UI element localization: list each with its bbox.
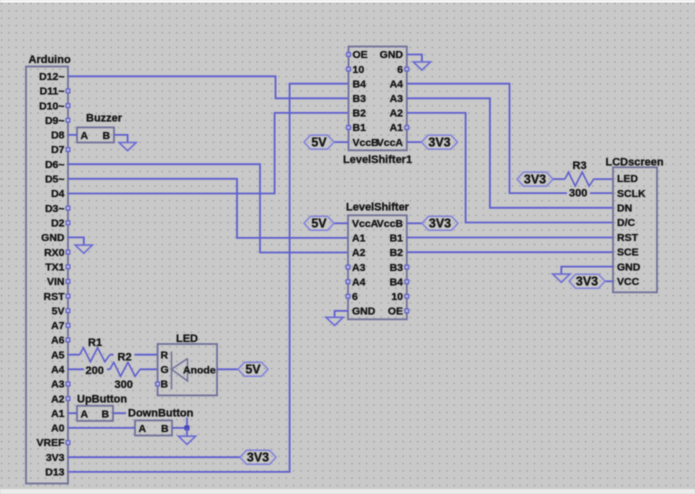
- svg-text:GND: GND: [352, 306, 376, 318]
- svg-text:R2: R2: [118, 351, 132, 363]
- ground at buttons: [178, 436, 195, 444]
- IC LCDscreen body: [613, 167, 657, 292]
- svg-text:GND: GND: [617, 261, 641, 273]
- svg-text:OE: OE: [388, 306, 403, 318]
- wire 3V3 flag to LCD VCC: [605, 280, 613, 282]
- svg-text:VccB: VccB: [353, 137, 380, 149]
- svg-text:3V3: 3V3: [247, 450, 269, 464]
- wire D12 to LevelShifter1 B3: [68, 76, 349, 98]
- power flag 5V at LevelShifter: [304, 216, 334, 230]
- svg-text:200: 200: [86, 365, 104, 377]
- power flag 5V at LevelShifter1: [304, 135, 334, 149]
- LED diode symbol: [172, 352, 188, 390]
- svg-text:R1: R1: [88, 337, 102, 349]
- svg-text:A3: A3: [390, 93, 404, 105]
- wire LevelShifter1 GND to ground: [407, 55, 422, 62]
- svg-text:B: B: [161, 423, 169, 435]
- unconnected pin A3 of Arduino: [66, 382, 70, 386]
- svg-text:LCDscreen: LCDscreen: [606, 156, 664, 168]
- svg-text:GND: GND: [41, 232, 65, 244]
- resistor R2: [110, 362, 140, 376]
- unconnected pin VIN of Arduino: [66, 280, 70, 284]
- svg-text:VCC: VCC: [617, 276, 640, 288]
- unconnected pin A6 of Arduino: [66, 338, 70, 342]
- svg-text:DownButton: DownButton: [128, 407, 194, 419]
- svg-text:A0: A0: [51, 423, 65, 435]
- svg-text:B4: B4: [390, 276, 404, 288]
- wire LCD GND to ground: [561, 267, 613, 275]
- power flag 3V3 at LCD VCC: [569, 274, 605, 288]
- svg-text:A4: A4: [390, 78, 404, 90]
- svg-text:D3~: D3~: [45, 203, 65, 215]
- svg-text:VIN: VIN: [47, 276, 65, 288]
- wire LevelShifter1 A3 to LCD DN: [407, 98, 613, 208]
- svg-text:VccA: VccA: [377, 137, 404, 149]
- svg-text:RST: RST: [44, 291, 66, 303]
- component Buzzer body: [77, 127, 114, 142]
- svg-text:LED: LED: [176, 333, 198, 345]
- svg-text:VccB: VccB: [377, 218, 404, 230]
- svg-text:RST: RST: [617, 232, 639, 244]
- svg-text:A5: A5: [51, 349, 65, 361]
- svg-text:OE: OE: [353, 49, 368, 61]
- ground at Buzzer: [119, 143, 136, 151]
- svg-text:10: 10: [353, 64, 365, 76]
- svg-text:B: B: [102, 409, 110, 421]
- svg-text:SCLK: SCLK: [617, 188, 646, 200]
- unconnected pin D3~ of Arduino: [66, 206, 70, 210]
- ground at LCD: [553, 274, 570, 282]
- component UpButton body: [77, 406, 113, 421]
- unconnected pin 5V of Arduino: [66, 309, 70, 313]
- svg-text:6: 6: [352, 291, 358, 303]
- wire R3 to LCD LED: [594, 178, 613, 180]
- svg-text:B1: B1: [390, 233, 404, 245]
- unconnected pin A1 of LevelShifter1: [405, 126, 409, 130]
- wire Arduino GND pin to ground: [68, 237, 84, 245]
- wire DownButton B to junction: [172, 427, 187, 429]
- wire junction to ground: [186, 428, 188, 436]
- value 300 of R3: [567, 188, 590, 198]
- resistor R1: [80, 348, 110, 362]
- svg-text:3V3: 3V3: [524, 172, 546, 186]
- svg-text:D11~: D11~: [40, 86, 65, 98]
- svg-text:A3: A3: [51, 379, 65, 391]
- svg-text:LevelShifter1: LevelShifter1: [343, 154, 412, 166]
- svg-text:3V3: 3V3: [576, 275, 598, 289]
- svg-text:D8: D8: [51, 130, 65, 142]
- wire A1 to UpButton A: [68, 412, 77, 414]
- svg-text:D/C: D/C: [617, 217, 636, 229]
- unconnected pin 10 of LevelShifter: [405, 294, 409, 298]
- label DownButton: [126, 407, 194, 418]
- svg-text:A: A: [81, 409, 89, 421]
- unconnected pin B of LED: [156, 382, 160, 386]
- value 200 of R1: [84, 365, 107, 375]
- svg-text:B4: B4: [353, 78, 367, 90]
- power flag 3V3 at Arduino: [240, 450, 276, 464]
- svg-text:D4: D4: [51, 188, 65, 200]
- wire LevelShifter GND to ground: [335, 311, 348, 317]
- unconnected pin D10~ of Arduino: [66, 104, 70, 108]
- svg-text:UpButton: UpButton: [77, 394, 127, 406]
- wire D6 to LevelShifter A2: [68, 164, 348, 252]
- svg-text:A1: A1: [352, 233, 366, 245]
- svg-text:RX0: RX0: [44, 247, 65, 259]
- unconnected pin A7 of Arduino: [66, 324, 70, 328]
- wire A5 to R1: [68, 354, 80, 356]
- svg-text:6: 6: [397, 64, 403, 76]
- svg-text:D7: D7: [51, 144, 65, 156]
- svg-text:LevelShifter: LevelShifter: [346, 201, 410, 213]
- svg-text:R3: R3: [573, 160, 587, 172]
- power flag 3V3 at LevelShifter: [422, 216, 458, 230]
- svg-text:VccA: VccA: [352, 218, 379, 230]
- svg-text:B3: B3: [353, 93, 367, 105]
- ground at LevelShifter: [326, 317, 343, 325]
- svg-text:5V: 5V: [52, 305, 65, 317]
- svg-text:DN: DN: [617, 203, 632, 215]
- label R2: [114, 352, 135, 362]
- svg-text:A3: A3: [352, 262, 366, 274]
- wire LevelShifter1 A2 to LCD D/C: [407, 113, 613, 223]
- svg-text:D10~: D10~: [39, 100, 64, 112]
- unconnected pin A2 of Arduino: [66, 397, 70, 401]
- wire LevelShifter B2 to LCD SCE: [407, 251, 613, 253]
- svg-text:R: R: [161, 349, 169, 361]
- component LED body: [158, 344, 217, 395]
- wire Buzzer B to ground: [114, 135, 128, 143]
- svg-text:D9~: D9~: [45, 115, 65, 127]
- unconnected pin A4 of LevelShifter: [346, 280, 350, 284]
- component DownButton body: [135, 420, 172, 435]
- svg-text:A7: A7: [51, 320, 65, 332]
- svg-text:3V3: 3V3: [428, 135, 450, 149]
- IC LevelShifter1 body: [349, 47, 407, 151]
- IC Arduino body: [26, 67, 68, 484]
- wire LevelShifter B1 to LCD RST: [407, 237, 613, 239]
- svg-text:10: 10: [391, 291, 403, 303]
- svg-text:VREF: VREF: [36, 437, 65, 449]
- svg-text:3V3: 3V3: [46, 452, 65, 464]
- ground at Arduino GND: [75, 245, 92, 253]
- unconnected pin 10 of LevelShifter1: [347, 67, 351, 71]
- svg-text:5V: 5V: [245, 363, 261, 377]
- svg-text:Arduino: Arduino: [29, 54, 71, 66]
- wire R1 to LED R: [110, 354, 158, 356]
- svg-text:D5~: D5~: [45, 174, 65, 186]
- wire UpButton B down to junction: [113, 413, 187, 428]
- wire D5 to LevelShifter A1: [68, 179, 348, 238]
- unconnected pin VREF of Arduino: [66, 441, 70, 445]
- unconnected pin OE of LevelShifter1: [347, 53, 351, 57]
- wire LED Anode to 5V flag: [217, 368, 238, 370]
- wire 5V flag to VccA: [334, 222, 348, 224]
- unconnected pin 6 of LevelShifter: [346, 294, 350, 298]
- svg-text:B1: B1: [353, 122, 367, 134]
- unconnected pin OE of LevelShifter: [405, 309, 409, 313]
- svg-text:G: G: [161, 364, 169, 376]
- unconnected pin A3 of LevelShifter: [346, 265, 350, 269]
- svg-text:A1: A1: [390, 122, 404, 134]
- svg-text:D6~: D6~: [45, 159, 65, 171]
- unconnected pin B4 of LevelShifter: [405, 280, 409, 284]
- unconnected pin D2 of Arduino: [66, 221, 70, 225]
- svg-text:B2: B2: [353, 108, 367, 120]
- IC LevelShifter body: [348, 215, 407, 319]
- svg-text:A: A: [81, 130, 89, 142]
- svg-text:A4: A4: [352, 276, 366, 288]
- svg-text:A4: A4: [51, 364, 65, 376]
- svg-text:5V: 5V: [311, 135, 327, 149]
- svg-text:B2: B2: [390, 247, 404, 259]
- wire R2 to LED G: [140, 368, 158, 370]
- svg-text:A6: A6: [51, 335, 65, 347]
- unconnected pin D11~ of Arduino: [66, 89, 70, 93]
- svg-text:300: 300: [569, 188, 587, 200]
- wire VccA to 3V3 flag: [407, 141, 422, 143]
- unconnected pin B1 of LevelShifter1: [347, 126, 351, 130]
- wire 3V3 flag to R3: [553, 178, 565, 180]
- wire LevelShifter1 A4 to LCD SCLK: [407, 84, 613, 193]
- svg-text:B: B: [161, 379, 169, 391]
- svg-text:TX1: TX1: [45, 261, 64, 273]
- svg-text:A2: A2: [390, 108, 404, 120]
- svg-text:SCE: SCE: [617, 247, 639, 259]
- svg-text:Buzzer: Buzzer: [86, 113, 123, 125]
- unconnected pin B3 of LevelShifter: [405, 265, 409, 269]
- wire D8 to Buzzer A: [68, 134, 77, 136]
- wire D4 to LevelShifter1 B2: [68, 113, 349, 194]
- power flag 3V3 at R3: [517, 172, 553, 186]
- svg-text:D12~: D12~: [39, 71, 64, 83]
- svg-text:D13: D13: [45, 467, 64, 479]
- unconnected pin TX1 of Arduino: [66, 265, 70, 269]
- resistor R3: [565, 172, 594, 186]
- wire Arduino 3V3 to flag: [68, 456, 240, 458]
- unconnected pin RST of Arduino: [66, 294, 70, 298]
- svg-text:A1: A1: [51, 408, 65, 420]
- wire A4 to R2: [68, 368, 110, 370]
- svg-text:B: B: [103, 130, 111, 142]
- wire A0 to DownButton A: [68, 427, 135, 429]
- svg-text:A2: A2: [352, 247, 366, 259]
- unconnected pin 6 of LevelShifter1: [405, 67, 409, 71]
- svg-text:Anode: Anode: [183, 364, 216, 376]
- wire 5V flag to VccB: [334, 141, 349, 143]
- junction dot: [185, 425, 190, 430]
- svg-text:D2: D2: [51, 218, 65, 230]
- ground at LevelShifter1: [413, 62, 430, 70]
- svg-text:5V: 5V: [311, 217, 327, 231]
- power flag 5V at LED: [238, 362, 268, 376]
- svg-text:B3: B3: [390, 262, 404, 274]
- wire VccB to 3V3 flag: [407, 222, 422, 224]
- power flag 3V3 at LevelShifter1: [422, 135, 458, 149]
- svg-text:A2: A2: [51, 393, 65, 405]
- unconnected pin D9~ of Arduino: [66, 118, 70, 122]
- unconnected pin D7 of Arduino: [66, 148, 70, 152]
- unconnected pin A3 of Arduino: [66, 382, 70, 386]
- svg-text:A: A: [139, 423, 147, 435]
- svg-text:3V3: 3V3: [429, 217, 451, 231]
- unconnected pin RX0 of Arduino: [66, 250, 70, 254]
- svg-text:300: 300: [115, 379, 133, 391]
- wire D13 to LevelShifter1 B4: [68, 84, 349, 472]
- svg-text:GND: GND: [380, 49, 404, 61]
- svg-text:LED: LED: [617, 173, 638, 185]
